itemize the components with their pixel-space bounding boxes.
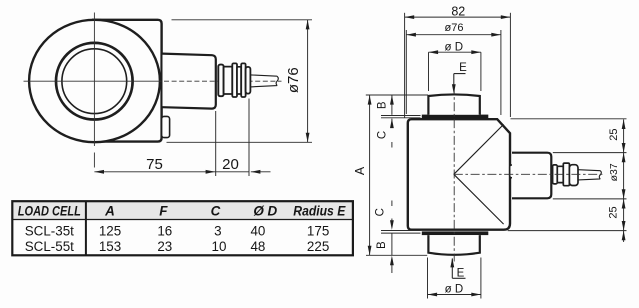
svg-text:225: 225	[307, 239, 329, 254]
table header background	[12, 201, 353, 219]
arrow A bottom	[368, 246, 372, 256]
arrow 75 left	[94, 170, 104, 174]
arrow 25 bottom down	[622, 221, 626, 231]
C top leader	[391, 119, 393, 148]
arrow 82 left	[405, 15, 415, 19]
gland end capsule	[569, 165, 578, 186]
dim ext line bottom (o76)	[167, 141, 313, 143]
top washer (dark strip)	[422, 115, 489, 119]
E bottom leader	[452, 259, 465, 279]
dim line B bottom	[391, 233, 393, 273]
arrow 25 bottom up	[622, 199, 626, 209]
ext 82 right	[509, 13, 511, 117]
cable tab	[162, 116, 170, 137]
svg-text:E: E	[457, 268, 465, 280]
ext washer bottom edges	[381, 231, 421, 234]
gland ring 1	[553, 165, 558, 184]
dim line o76	[307, 20, 309, 143]
svg-text:23: 23	[157, 239, 172, 254]
arrow o76 bottom	[306, 133, 310, 143]
svg-text:ø76: ø76	[445, 22, 464, 34]
load button ring outer band	[56, 43, 133, 120]
inner diagonal upper	[454, 124, 504, 174]
arrow 25 bottom tail up	[622, 231, 626, 241]
svg-text:ø37: ø37	[608, 163, 620, 181]
svg-text:75: 75	[146, 156, 163, 173]
arrow E bottom	[450, 258, 454, 268]
svg-text:153: 153	[99, 239, 121, 254]
dim ext line 20 right	[248, 99, 250, 177]
gland ring 1	[218, 65, 223, 97]
arrow oD top left	[429, 50, 439, 54]
svg-text:C: C	[211, 204, 221, 219]
svg-text:ø D: ø D	[445, 42, 464, 54]
cable with broken end	[578, 170, 601, 180]
gland ring 2	[557, 166, 563, 182]
LEFT FIGURE: load cell top view	[24, 13, 282, 168]
svg-text:C: C	[375, 208, 387, 216]
arrow 75 right	[206, 170, 216, 174]
arrow 82 right	[501, 15, 511, 19]
svg-text:175: 175	[307, 224, 329, 239]
RIGHT FIGURE dimensions	[366, 13, 627, 299]
arrow 25 top down	[622, 143, 626, 153]
svg-text:25: 25	[607, 206, 619, 218]
svg-text:82: 82	[451, 4, 465, 18]
top boss	[428, 94, 479, 114]
svg-text:C: C	[377, 131, 389, 139]
dim line oD top	[429, 51, 481, 53]
table divider vertical	[85, 201, 87, 255]
ext right cover top	[553, 152, 627, 154]
arrow C top	[390, 119, 394, 129]
ext A top (boss top)	[366, 94, 428, 96]
arrow oD top right	[471, 50, 481, 54]
svg-text:LOAD CELL: LOAD CELL	[18, 204, 81, 219]
dim line 75/20	[94, 171, 270, 173]
svg-text:16: 16	[157, 224, 172, 239]
arrow o76 top	[306, 20, 310, 30]
svg-text:SCL-35t: SCL-35t	[25, 224, 74, 239]
ext oD bottom left	[427, 258, 429, 299]
dim ext line top (o76)	[172, 19, 313, 21]
load button ring inner	[62, 49, 127, 114]
arrow A top	[368, 95, 372, 105]
svg-text:SCL-55t: SCL-55t	[25, 239, 74, 254]
LEFT FIGURE dimensions	[94, 20, 312, 176]
inner diagonal lower	[454, 174, 504, 224]
cable axis dashed	[164, 80, 282, 82]
svg-text:ø D: ø D	[445, 284, 464, 296]
svg-text:48: 48	[250, 239, 265, 254]
horizontal centerline	[24, 80, 162, 82]
vertical centerline dashed	[453, 86, 455, 262]
C bottom leader	[391, 201, 393, 223]
gland nut	[563, 163, 569, 186]
ext right body top	[511, 118, 627, 120]
table header underline	[12, 219, 353, 221]
svg-text:E: E	[459, 62, 467, 74]
arrow C bottom	[390, 220, 394, 230]
arrow B top up	[390, 95, 394, 105]
svg-text:A: A	[104, 204, 115, 219]
gland ring 3	[237, 67, 241, 94]
svg-text:ø76: ø76	[285, 67, 302, 93]
dim line 82	[405, 16, 511, 18]
dim ext line 75 right	[215, 111, 217, 176]
ext washer top edges	[381, 116, 421, 118]
arrow o76 right	[491, 33, 501, 37]
svg-text:3: 3	[214, 224, 221, 239]
ext 82 left	[404, 13, 406, 118]
arrow oD bottom right	[471, 293, 481, 297]
bottom washer (dark strip)	[422, 231, 489, 235]
svg-text:10: 10	[212, 239, 227, 254]
body block outline	[92, 20, 162, 142]
gland end capsule	[246, 67, 251, 94]
svg-text:F: F	[159, 204, 168, 219]
RIGHT FIGURE: load cell side view	[408, 86, 605, 262]
body circle	[29, 20, 160, 142]
arrow o37 up	[622, 153, 626, 163]
arrow oD bottom left	[428, 293, 438, 297]
gland cover plate	[163, 54, 216, 109]
ext oD bottom right	[480, 258, 482, 299]
ext oD top left	[428, 52, 430, 91]
arrow 25 top up	[622, 119, 626, 129]
cable with broken end	[250, 75, 278, 87]
E top leader	[454, 74, 466, 89]
svg-text:25: 25	[608, 128, 620, 140]
svg-text:40: 40	[250, 224, 265, 239]
svg-text:Ø D: Ø D	[253, 204, 277, 219]
svg-text:B: B	[376, 101, 388, 109]
arrow B bottom outside	[390, 256, 394, 266]
ext right cover bottom	[553, 198, 627, 200]
dim line oD bottom	[428, 294, 481, 296]
svg-text:20: 20	[222, 156, 239, 173]
dim line 25/o37/25	[623, 119, 625, 242]
ext oD top right	[480, 52, 482, 91]
horizontal centerline dashed	[454, 173, 605, 175]
svg-text:A: A	[353, 166, 367, 175]
dim line A	[369, 95, 371, 255]
svg-text:B: B	[376, 241, 388, 249]
arrow o76 left	[406, 33, 416, 37]
body square with chamfer	[408, 119, 510, 230]
gland ring 2	[224, 67, 233, 94]
dim line B top	[391, 95, 393, 115]
ext o76 left	[405, 30, 407, 114]
ext right body bottom	[508, 230, 627, 232]
ext A bottom (boss bottom)	[366, 254, 427, 256]
gland nut 1	[232, 63, 237, 97]
arrow 20 outside	[251, 170, 261, 174]
gland cover	[512, 153, 551, 199]
ext o76 right	[500, 30, 502, 115]
svg-text:125: 125	[99, 224, 121, 239]
bottom boss	[428, 235, 479, 255]
gland nut 2	[241, 63, 245, 97]
svg-text:Radius E: Radius E	[293, 204, 346, 219]
vertical centerline	[93, 13, 95, 168]
side tab	[510, 165, 515, 178]
dim line o76	[406, 34, 501, 36]
arrow o37 down	[622, 189, 626, 199]
table outer border	[12, 201, 353, 255]
arrow E top	[452, 84, 456, 94]
